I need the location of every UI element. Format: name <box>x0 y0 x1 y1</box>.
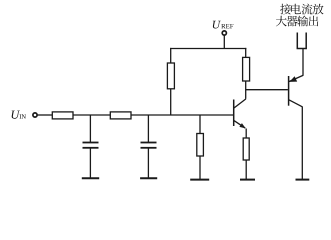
ground (under C1) <box>82 177 99 179</box>
ground (under R4) <box>240 179 255 181</box>
capacitor C1 <box>83 115 99 178</box>
transistor Q2 (PNP) <box>289 75 303 179</box>
node U_IN input terminal <box>33 113 37 117</box>
resistor R3 (base bias to ground) <box>197 115 204 179</box>
resistor R1 <box>52 112 73 119</box>
ground (under Q2 collector) <box>296 179 310 181</box>
resistor R5 (left collector load) <box>167 48 174 115</box>
resistor R2 <box>110 112 131 119</box>
wire input to R1 <box>37 114 52 116</box>
resistor R6 (right load) <box>243 48 250 99</box>
wire Q1 collector node to Q2 base <box>246 89 288 91</box>
node U_REF supply terminal <box>222 31 226 35</box>
wire R1 to R2 <box>73 114 110 116</box>
wire top supply rail <box>170 48 246 50</box>
connector J1 (output socket) <box>297 33 306 49</box>
label "接电流放大器输出" (to current amplifier output) <box>276 4 324 27</box>
ground (under R3) <box>190 179 209 181</box>
label U_IN <box>12 111 20 119</box>
label U_REF <box>213 21 221 29</box>
capacitor C2 <box>141 115 157 178</box>
wire R2 to Q1 base <box>131 114 233 116</box>
wire U_REF stub <box>223 35 225 48</box>
transistor Q1 (NPN) <box>234 99 247 138</box>
resistor R4 (emitter resistor of Q1) <box>243 138 249 179</box>
wire Q2 emitter to output socket <box>302 49 304 76</box>
ground (under C2) <box>140 177 157 179</box>
